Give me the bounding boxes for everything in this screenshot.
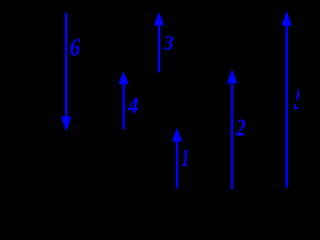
current arrow 6 (downward) — [61, 13, 71, 132]
svg-text:3: 3 — [163, 31, 174, 55]
svg-text:6: 6 — [70, 32, 81, 61]
current arrow 1 (upward) — [172, 128, 182, 189]
current arrow 3 (upward) — [154, 12, 164, 73]
svg-text:2: 2 — [236, 115, 246, 141]
svg-text:1: 1 — [181, 145, 189, 172]
current arrow 4 (upward) — [118, 71, 128, 129]
svg-text:4: 4 — [127, 93, 139, 118]
current arrow 5 (upward) — [282, 11, 292, 188]
current arrow 2 (upward) — [227, 69, 237, 189]
svg-text:5: 5 — [294, 83, 299, 116]
